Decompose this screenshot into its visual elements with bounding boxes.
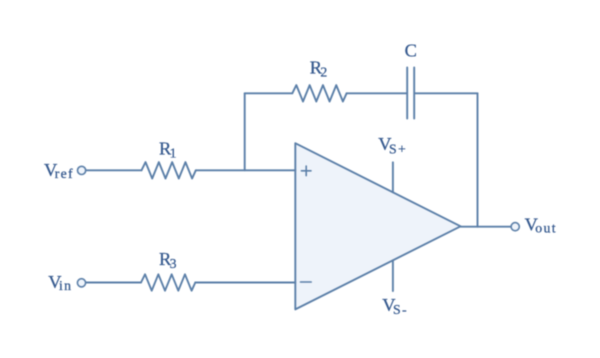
label R1 [159, 139, 178, 161]
terminal Vout [511, 223, 519, 231]
label VS- [382, 295, 408, 317]
label R2 [310, 57, 329, 79]
op-amp plus input marker [301, 166, 311, 176]
op-amp U1 [295, 143, 460, 309]
svg-text:out: out [535, 220, 557, 235]
svg-text:1: 1 [170, 145, 178, 160]
svg-text:in: in [59, 278, 72, 293]
label Vref [44, 160, 74, 181]
terminal Vref [78, 166, 86, 174]
wire feedback right drop [477, 93, 479, 226]
wire capacitor to corner [415, 92, 477, 94]
resistor R3 [141, 274, 195, 290]
wire output [461, 226, 511, 228]
resistor R1 [142, 162, 196, 178]
svg-text:3: 3 [170, 256, 178, 271]
wire R2 to capacitor [347, 92, 407, 94]
resistor R2 [292, 85, 346, 101]
svg-text:2: 2 [320, 65, 328, 80]
capacitor C [407, 68, 414, 119]
svg-text:S-: S- [393, 302, 408, 317]
wire R1 to op-amp [196, 169, 295, 171]
op-amp negative supply pin [392, 260, 394, 291]
label VS+ [378, 134, 407, 156]
label R3 [159, 249, 178, 271]
op-amp minus input marker [301, 281, 312, 283]
wire Vref lead [86, 169, 141, 171]
wire feedback junction riser [244, 93, 246, 170]
label C [405, 41, 417, 61]
terminal Vin [77, 279, 85, 287]
wire R3 to op-amp [195, 282, 295, 284]
op-amp positive supply pin [392, 162, 394, 192]
wire Vin lead [86, 282, 141, 284]
wire top left [245, 92, 293, 94]
svg-text:ref: ref [55, 166, 74, 181]
label Vin [48, 272, 72, 293]
svg-text:S+: S+ [389, 141, 407, 156]
label Vout [525, 215, 557, 236]
svg-text:C: C [405, 41, 417, 61]
